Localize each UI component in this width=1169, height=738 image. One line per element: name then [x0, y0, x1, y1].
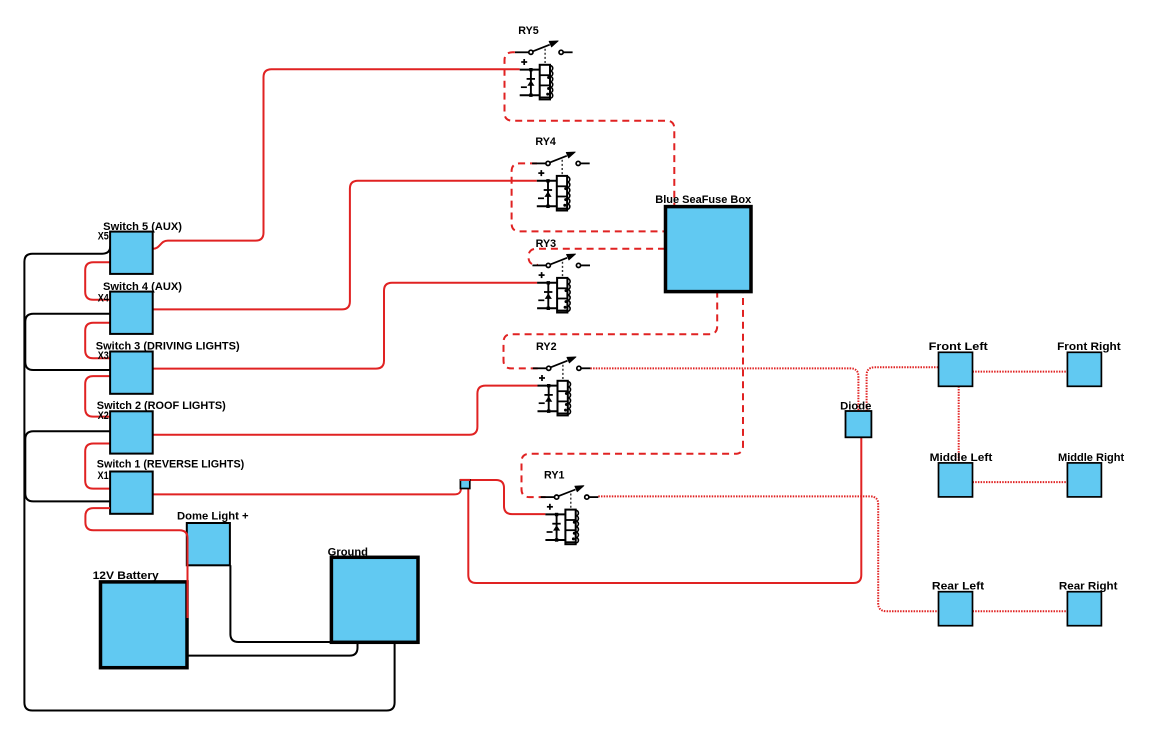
- wire RY1 switch to Blue SeaFuse Box bottom: [522, 292, 744, 497]
- svg-text:RY3: RY3: [536, 238, 557, 250]
- svg-text:Rear Left: Rear Left: [932, 581, 985, 593]
- svg-text:RY1: RY1: [544, 470, 565, 482]
- relay RY4: [532, 136, 590, 211]
- wire Dome Light minus to Ground: [230, 565, 331, 642]
- wire Front Left to Middle Left: [958, 386, 960, 463]
- switch X1 box: [110, 472, 153, 514]
- wire junction node to RY1 coil plus: [461, 480, 546, 514]
- wire RY3 switch to Blue SeaFuse Box left: [529, 249, 666, 265]
- wire Battery minus to Ground: [188, 643, 358, 656]
- light Rear Right box: [1067, 592, 1101, 626]
- battery 12V box: [101, 582, 188, 668]
- relay RY1: [541, 470, 599, 545]
- wire junction node to Diode bottom: [468, 437, 861, 583]
- switch X5 box: [110, 232, 153, 274]
- light Front Right box: [1067, 352, 1101, 386]
- wire Middle Left to Middle Right: [973, 481, 1068, 483]
- Blue SeaFuse Box: [666, 207, 752, 292]
- svg-text:12V Battery: 12V Battery: [93, 570, 160, 582]
- relay RY2: [533, 341, 591, 416]
- ground box: [331, 557, 418, 642]
- svg-text:Switch 4 (AUX): Switch 4 (AUX): [103, 281, 182, 293]
- svg-text:Front Left: Front Left: [929, 341, 988, 353]
- svg-text:Ground: Ground: [328, 547, 368, 559]
- dome light box: [187, 523, 230, 565]
- wire Front Left to Front Right: [973, 371, 1068, 373]
- wire Switch1 out to Dome Light and Battery plus: [85, 508, 187, 618]
- switch X3 box: [110, 352, 153, 394]
- wire RY1 output to Rear Left: [598, 496, 938, 611]
- svg-text:X4: X4: [98, 293, 110, 305]
- wire Switch1 to junction node: [153, 489, 461, 495]
- light Front Left box: [939, 352, 973, 386]
- light Middle Right box: [1067, 463, 1101, 497]
- svg-text:Blue SeaFuse Box: Blue SeaFuse Box: [655, 194, 752, 206]
- wire over junction node top: [460, 479, 470, 481]
- switch X2 box: [110, 411, 153, 453]
- svg-text:X2: X2: [98, 410, 109, 422]
- svg-text:X5: X5: [98, 231, 109, 243]
- wire Switch5 out to Switch4 in: [85, 262, 110, 300]
- svg-text:RY4: RY4: [535, 136, 556, 148]
- wire Switch4 out to Switch3 in: [85, 323, 110, 359]
- wire Switch2 to Switch1 black link: [25, 431, 110, 501]
- relay RY3: [532, 238, 590, 313]
- wire RY2 output to Diode top: [590, 368, 858, 411]
- wire Diode top to Front Left: [867, 367, 939, 411]
- wire RY2 switch to Blue SeaFuse Box bottom: [504, 292, 718, 368]
- wire Switch4 to Switch3 black link: [25, 314, 110, 370]
- wire Switch3 out to Switch2 in: [85, 376, 110, 417]
- light Rear Left box: [939, 592, 973, 626]
- wire Switch2 out to Switch1 in: [85, 444, 110, 489]
- wire Switch5 to RY5 coil plus: [153, 69, 520, 249]
- svg-text:RY2: RY2: [536, 341, 557, 353]
- svg-text:Front Right: Front Right: [1057, 341, 1121, 353]
- svg-text:Switch 2 (ROOF LIGHTS): Switch 2 (ROOF LIGHTS): [97, 400, 226, 412]
- wire RY5 switch to Blue SeaFuse Box top: [505, 52, 675, 206]
- light Middle Left box: [939, 463, 973, 497]
- svg-text:X1: X1: [98, 470, 109, 482]
- svg-text:RY5: RY5: [518, 25, 539, 37]
- svg-text:Switch 1 (REVERSE LIGHTS): Switch 1 (REVERSE LIGHTS): [97, 459, 245, 471]
- svg-text:Middle Left: Middle Left: [930, 452, 993, 464]
- wire Switch3 to RY3 coil plus: [153, 283, 537, 369]
- wire Switch5 ground lead to bus and Ground box: [24, 246, 394, 710]
- relay RY5: [515, 25, 573, 99]
- wire Switch2 to RY2 coil plus: [153, 386, 538, 435]
- svg-text:Switch 3 (DRIVING LIGHTS): Switch 3 (DRIVING LIGHTS): [96, 340, 240, 352]
- wire Rear Left to Rear Right: [973, 610, 1068, 612]
- diode D1 box: [846, 411, 872, 437]
- svg-text:X3: X3: [98, 350, 109, 362]
- svg-text:Switch 5 (AUX): Switch 5 (AUX): [103, 221, 182, 233]
- junction node splice: [460, 480, 469, 489]
- wire Switch4 to RY4 coil plus: [153, 181, 537, 310]
- svg-text:Dome Light +: Dome Light +: [177, 510, 249, 522]
- switch X4 box: [110, 292, 153, 334]
- svg-text:Rear Right: Rear Right: [1059, 581, 1118, 593]
- svg-text:Diode: Diode: [840, 401, 871, 413]
- svg-text:Middle Right: Middle Right: [1058, 452, 1125, 464]
- wire RY4 switch to Blue SeaFuse Box left: [512, 163, 665, 231]
